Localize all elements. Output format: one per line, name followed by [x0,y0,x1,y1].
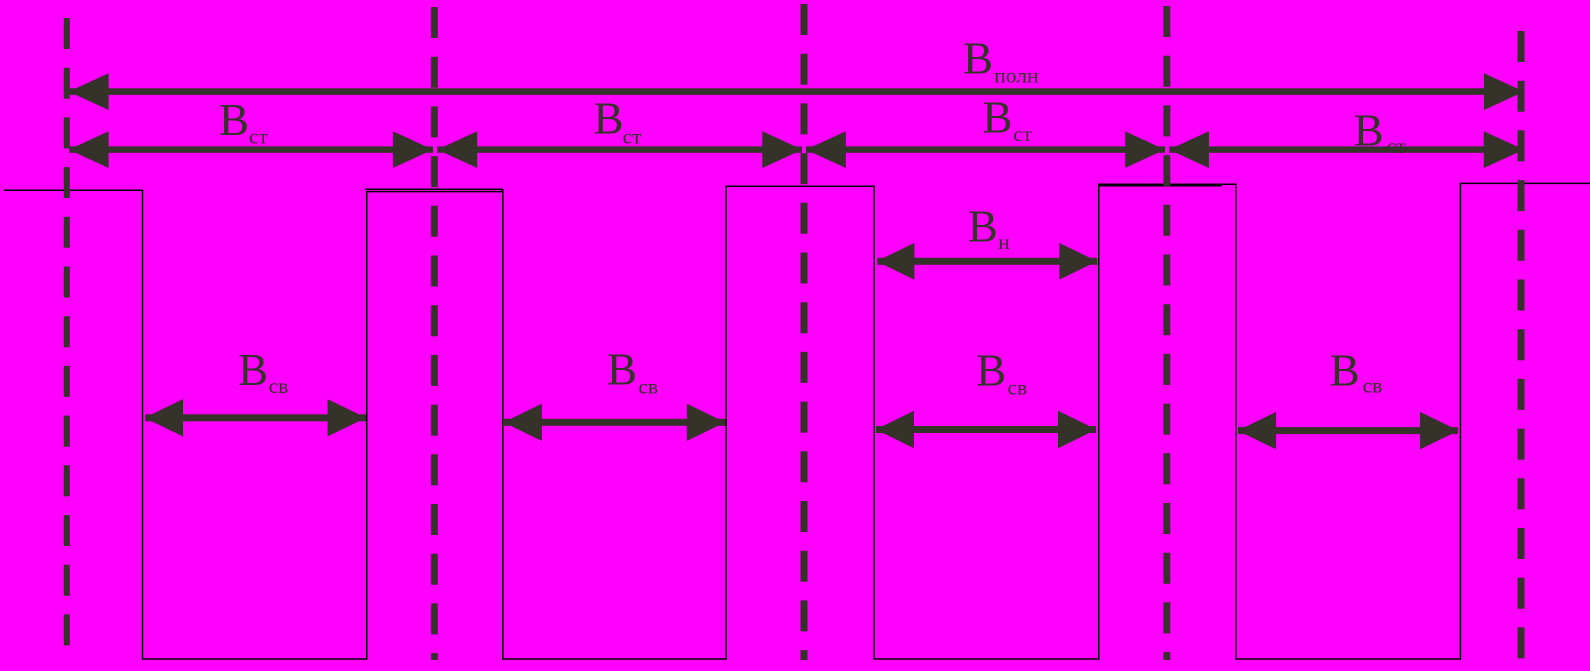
svg-text:В: В [238,345,268,395]
svg-text:В: В [1330,345,1360,395]
svg-text:ст: ст [249,125,269,149]
svg-text:В: В [982,93,1012,143]
svg-text:н: н [998,230,1010,254]
svg-text:В: В [968,202,998,252]
svg-text:св: св [638,375,658,399]
svg-text:ст: ст [623,125,643,149]
svg-text:св: св [269,374,289,398]
svg-text:В: В [219,95,249,145]
svg-text:ст: ст [1387,134,1407,158]
svg-text:св: св [1363,373,1383,397]
svg-text:В: В [594,94,624,144]
svg-text:ст: ст [1013,122,1033,146]
svg-text:св: св [1008,375,1028,399]
svg-text:В: В [607,345,637,395]
svg-text:В: В [963,34,993,84]
svg-text:полн: полн [994,64,1038,88]
svg-text:В: В [976,345,1006,395]
